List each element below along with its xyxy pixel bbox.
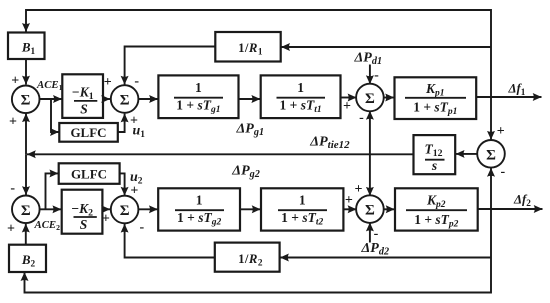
- summing junction S2: [111, 85, 139, 113]
- wire branch S5 output to GLFC2: [46, 173, 59, 209]
- svg-text:+: +: [355, 182, 363, 197]
- svg-text:−K1: −K1: [72, 85, 94, 103]
- svg-text:1: 1: [299, 193, 306, 208]
- wire ΔPd2 input to sum S7 bottom: [369, 223, 371, 243]
- svg-text:-: -: [500, 165, 505, 180]
- wire Tt1 output to sum S3: [341, 97, 357, 99]
- svg-text:-: -: [374, 226, 379, 241]
- svg-text:-: -: [10, 181, 15, 196]
- wire Tg2 to Tt2 (ΔPg2): [240, 208, 261, 210]
- svg-text:1/R2: 1/R2: [238, 252, 263, 268]
- summing junction S6: [111, 196, 139, 224]
- svg-text:ΔPg1: ΔPg1: [236, 122, 265, 139]
- summing junction S3: [356, 84, 384, 112]
- svg-text:T12: T12: [424, 142, 442, 160]
- block governor 1/(1+sTg1): [158, 75, 238, 118]
- wire -K1/S output to sum S2: [103, 98, 110, 100]
- svg-text:S: S: [80, 102, 88, 117]
- wire feedback Δf1 to B1 (top line): [26, 10, 491, 97]
- wire Tg1 to Tt1 (ΔPg1): [239, 98, 261, 100]
- svg-text:1 + sTp1: 1 + sTp1: [413, 100, 457, 118]
- wire S4 output to T12 block: [456, 153, 477, 155]
- svg-text:GLFC: GLFC: [71, 167, 107, 182]
- svg-text:Δf1: Δf1: [508, 82, 526, 99]
- svg-text:1: 1: [297, 80, 304, 95]
- svg-text:1/R1: 1/R1: [238, 41, 263, 57]
- svg-text:1 + sTg2: 1 + sTg2: [177, 210, 221, 228]
- svg-text:1: 1: [195, 80, 202, 95]
- wire branch S1 output to GLFC1: [51, 99, 59, 132]
- svg-text:+: +: [104, 75, 112, 90]
- svg-text:ΔPtie12: ΔPtie12: [309, 135, 350, 152]
- summing junction S1: [12, 86, 40, 114]
- svg-text:ACE2: ACE2: [34, 219, 61, 232]
- svg-text:Kp2: Kp2: [426, 193, 446, 211]
- block -K1/S: [62, 74, 103, 118]
- svg-text:S: S: [80, 217, 88, 232]
- svg-text:B1: B1: [21, 40, 36, 57]
- block B1: [8, 33, 45, 60]
- wire Δf1 to sum S4 top: [490, 97, 492, 140]
- wire S7 output to Kp2 block: [384, 208, 395, 210]
- svg-text:1 + sTt1: 1 + sTt1: [280, 98, 322, 116]
- wire tie-line branch to sum S7 top: [369, 154, 371, 195]
- summing junction S5: [12, 196, 40, 224]
- wire Δf2 output: [478, 208, 543, 210]
- svg-text:GLFC: GLFC: [70, 125, 106, 140]
- svg-text:1 + sTp2: 1 + sTp2: [414, 212, 458, 230]
- wire Δf1 to 1/R1 input: [281, 46, 491, 48]
- svg-text:+: +: [497, 124, 505, 139]
- svg-text:−K2: −K2: [71, 201, 93, 219]
- block power system Kp2/(1+sTp2): [395, 188, 478, 230]
- wire B1 to sum S1: [25, 59, 27, 84]
- block power system Kp1/(1+sTp1): [395, 77, 477, 119]
- svg-text:1: 1: [196, 193, 203, 208]
- block turbine 1/(1+sTt1): [261, 75, 341, 118]
- wire Δf2 to sum S4 bottom: [490, 168, 492, 209]
- svg-text:Σ: Σ: [486, 147, 496, 163]
- wire S6 output to Tg2 block: [139, 208, 158, 210]
- summing junction S4 (tie-line): [477, 140, 505, 168]
- wire S1 output to -K1/S block: [40, 98, 62, 100]
- wire 1/R1 output to sum S2 top: [125, 47, 216, 85]
- svg-text:Kp1: Kp1: [425, 81, 445, 99]
- svg-text:Σ: Σ: [120, 93, 130, 109]
- wire GLFC1 output to sum S2 bottom: [118, 114, 125, 132]
- svg-text:Σ: Σ: [365, 91, 375, 107]
- svg-text:+: +: [11, 74, 19, 89]
- block 1/R1: [215, 32, 280, 62]
- svg-text:ACE1: ACE1: [36, 79, 63, 92]
- svg-text:Σ: Σ: [120, 203, 130, 219]
- svg-text:+: +: [7, 222, 15, 237]
- svg-text:ΔPg2: ΔPg2: [231, 164, 260, 181]
- svg-text:Σ: Σ: [21, 203, 31, 219]
- svg-text:-: -: [374, 68, 379, 83]
- wire ΔPtie12 from T12 to left rail: [27, 153, 414, 155]
- svg-text:1 + sTt2: 1 + sTt2: [281, 210, 323, 228]
- block GLFC1: [59, 123, 118, 142]
- block -K2/S: [62, 190, 103, 234]
- svg-text:Δf2: Δf2: [513, 193, 531, 210]
- wire S3 output to Kp1 block: [384, 97, 395, 99]
- summing junction S7: [356, 195, 384, 223]
- wire S5 output to -K2/S block: [40, 208, 61, 210]
- block 1/R2: [215, 243, 280, 272]
- wire Δf1 output: [476, 96, 541, 98]
- block GLFC2: [59, 163, 120, 184]
- wire B2 to sum S5 bottom: [25, 224, 27, 245]
- svg-text:+: +: [130, 114, 138, 129]
- svg-text:+: +: [9, 115, 17, 130]
- svg-text:B2: B2: [21, 252, 36, 269]
- wire Δf2 to 1/R2 input: [280, 257, 491, 259]
- block governor 1/(1+sTg2): [158, 188, 240, 230]
- wire 1/R2 output to sum S6 bottom: [125, 224, 215, 258]
- wire GLFC2 output to sum S6 top: [120, 173, 125, 195]
- wire Δf2 feedback to B2 (bottom line): [25, 209, 492, 293]
- svg-text:-: -: [139, 220, 144, 235]
- wire S2 output to Tg1 block: [139, 98, 158, 100]
- svg-text:+: +: [102, 212, 110, 227]
- svg-text:Σ: Σ: [21, 93, 31, 109]
- block turbine 1/(1+sTt2): [261, 188, 343, 230]
- svg-text:+: +: [130, 184, 138, 199]
- svg-text:s: s: [431, 158, 437, 173]
- wire left rail tie to sum S5 top: [25, 154, 27, 195]
- wire -K2/S output to sum S6: [102, 208, 110, 210]
- block B2: [9, 245, 46, 272]
- svg-text:Σ: Σ: [365, 203, 375, 219]
- wire Tt2 output to sum S7: [343, 208, 356, 210]
- svg-text:-: -: [134, 74, 139, 89]
- wire ΔPd1 input to sum S3 top: [369, 65, 371, 85]
- wire tie-line to sum S3 bottom: [369, 111, 371, 154]
- svg-text:ΔPd1: ΔPd1: [354, 51, 383, 68]
- svg-text:ΔPd2: ΔPd2: [361, 241, 390, 258]
- svg-text:-: -: [359, 110, 364, 125]
- svg-text:1 + sTg1: 1 + sTg1: [176, 98, 220, 116]
- block tie-line T12/s: [414, 135, 456, 174]
- svg-text:+: +: [345, 193, 353, 208]
- wire left rail tie to sum S1 bottom: [25, 113, 27, 154]
- svg-text:+: +: [343, 99, 351, 114]
